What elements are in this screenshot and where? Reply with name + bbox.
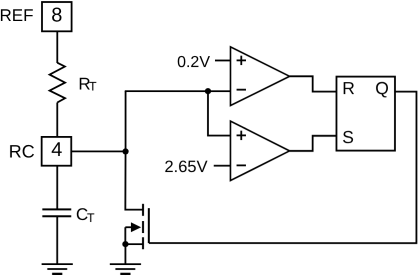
wire U1 output to latch R input — [290, 76, 337, 91]
resistor RT — [50, 63, 66, 103]
svg-text:R: R — [342, 78, 355, 98]
wire pin8 to RT — [56, 31, 58, 63]
REF label — [0, 6, 33, 25]
wire node A to transistor drain — [125, 151, 143, 209]
svg-text:Q: Q — [375, 78, 389, 98]
node C junction dot (source) — [122, 241, 128, 247]
svg-text:T: T — [89, 79, 97, 93]
wire U2 output to latch S input — [290, 136, 337, 151]
svg-text:T: T — [87, 211, 95, 225]
label CT — [76, 205, 95, 225]
svg-text:RC: RC — [9, 142, 35, 162]
node A junction dot — [122, 148, 128, 154]
wire source to ground — [124, 244, 126, 264]
label 0.2V — [177, 54, 210, 71]
ground (below transistor) — [110, 264, 141, 274]
wire node A up — [125, 91, 127, 151]
wire node B to comparator U2 plus input — [208, 91, 231, 135]
svg-text:0.2V: 0.2V — [177, 54, 210, 71]
label 2.65V — [164, 158, 207, 176]
svg-text:8: 8 — [51, 5, 62, 27]
node B junction dot — [205, 88, 211, 94]
svg-text:2.65V: 2.65V — [164, 158, 207, 176]
svg-text:S: S — [342, 127, 354, 147]
wire pin4 to CT — [56, 166, 58, 210]
pin 8 box — [42, 2, 72, 31]
wire 2.65V to U2 minus input — [214, 165, 231, 167]
ground (below CT) — [42, 264, 73, 274]
wire to comparator U1 minus input — [125, 90, 231, 92]
comparator U2 — [230, 121, 289, 181]
label RT — [78, 74, 97, 93]
svg-text:REF: REF — [0, 6, 33, 25]
pin 4 box — [42, 137, 72, 166]
wire 0.2V to U1 plus input — [215, 59, 231, 61]
wire CT to ground — [56, 216, 58, 264]
SR latch U3 — [336, 77, 395, 151]
RC label — [9, 142, 35, 162]
wire latch Q output to transistor gate — [149, 92, 417, 244]
wire pin4 to node A — [71, 150, 125, 152]
wire RT to pin4 — [56, 103, 58, 137]
transistor Q1 NMOS — [125, 204, 149, 249]
comparator U1 — [230, 47, 289, 106]
capacitor CT — [42, 209, 71, 216]
svg-text:4: 4 — [51, 139, 62, 161]
